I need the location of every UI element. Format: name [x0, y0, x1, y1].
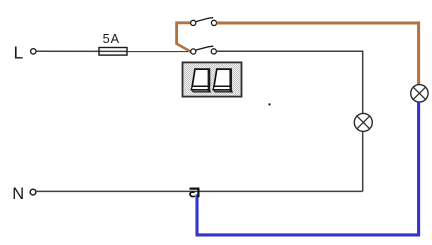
switch SW1 right contact	[211, 20, 216, 25]
switch SW1 blade	[196, 18, 214, 22]
switch SW2 right contact	[211, 49, 216, 54]
switch SW2 blade	[196, 46, 213, 50]
fuse F1	[99, 48, 127, 56]
lamp LP2	[354, 113, 372, 131]
switch SW1 left contact	[191, 20, 196, 25]
wire brown from feed up to switch SW1	[177, 23, 191, 45]
rocker 2	[213, 69, 232, 92]
wire L to fuse to switch SW2	[36, 50, 191, 52]
svg-text:5A: 5A	[103, 32, 121, 46]
wire blue from lamp LP1 to connector	[197, 102, 419, 235]
stray dot	[268, 103, 270, 105]
svg-text:N: N	[12, 185, 24, 203]
wire from SW2 to lamp LP2	[216, 51, 362, 113]
connector block junction	[190, 189, 199, 198]
rocker 1	[191, 69, 210, 92]
wire brown diagonal to switch SW2 input	[176, 44, 192, 53]
terminal L	[31, 49, 36, 54]
lamp LP1	[411, 85, 428, 102]
switch SW2 left contact	[191, 49, 196, 54]
wire from lamp LP2 to neutral	[362, 131, 364, 191]
wire brown from SW1 to lamp LP1	[217, 23, 419, 85]
svg-text:L: L	[14, 42, 24, 62]
wire neutral N to lamp LP2	[36, 190, 363, 192]
terminal N	[30, 189, 36, 195]
